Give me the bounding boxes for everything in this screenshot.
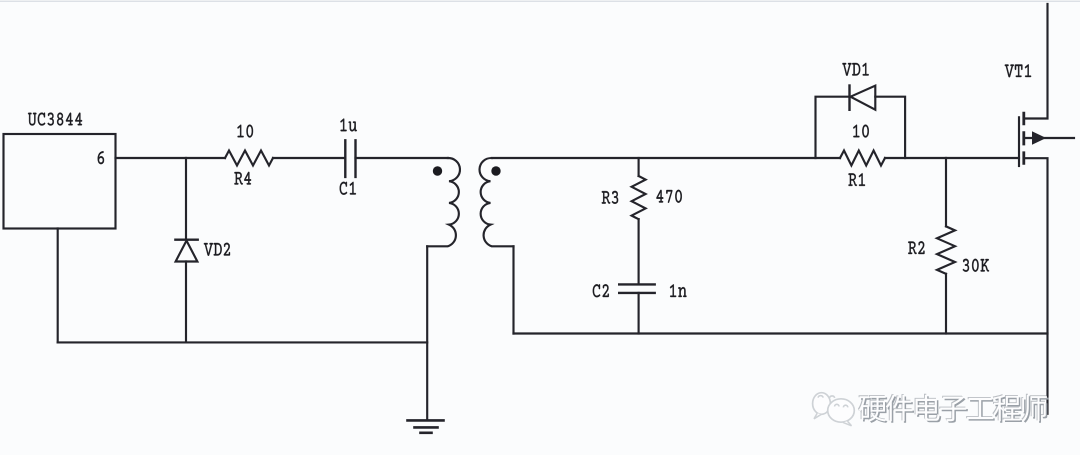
node dot secondary winding [491,166,500,175]
label R3 value 470 [656,190,681,203]
wire secondary top rail left [492,157,840,159]
resistor R4 [225,151,273,166]
wire pin6 to R4 [116,157,226,159]
label R1 [849,173,866,186]
node VD2 branch wire [185,158,187,239]
wire secondary bottom rail [514,332,1048,334]
capacitor C1 [345,140,355,177]
node dot primary winding [433,166,442,175]
transformer T1 secondary winding [480,158,514,246]
wire R3 to C2 [638,219,640,284]
wire R1 to gate [885,157,1019,159]
transistor VT1 channel bars [1022,113,1025,163]
label C1 [340,182,356,195]
pin 6 label [98,151,104,164]
wire C2 to bottom rail [638,293,640,334]
wechat logo left bubble [813,393,831,415]
transformer T1 primary winding [427,158,460,246]
wire R2 to bottom rail [945,274,947,334]
resistor R3 [632,176,646,219]
label R4 value 10 [238,125,254,138]
wire VD1 bypass loop [816,97,906,158]
capacitor C2 [619,284,655,293]
label VT1 [1005,64,1031,77]
label C2 value 1n [670,284,686,297]
wire VD2 to bottom rail [185,262,187,343]
label C2 [593,284,609,297]
diode VD2 [175,238,197,240]
label VD1 [842,63,868,76]
label R2 [908,241,924,254]
wechat logo eyes [818,396,835,398]
label R4 [234,172,251,185]
top hairline border [0,1,1080,2]
wire secondary to bottom rail [512,246,514,333]
wire UC3844 bottom drop [57,229,59,343]
label C1 value 1u [341,119,357,132]
node R3 branch [638,158,640,176]
ground [408,419,444,422]
wire C1 to transformer primary [356,157,448,159]
transistor VT1 body arrow [1033,132,1046,144]
label UC3844 [28,113,82,126]
wire VT1 drain lead [1024,4,1048,119]
wechat logo right bubble [828,399,855,422]
wire VT1 body lead [1024,137,1074,139]
node R2 branch [945,158,947,226]
IC U1 box UC3844 [4,134,116,229]
wire primary bottom rail [58,341,428,343]
label R1 value 10 [853,125,869,138]
diode VD1 [848,86,850,110]
transistor VT1 gate line [1018,117,1020,166]
resistor R1 [840,151,885,166]
wire VT1 source lead [1024,158,1048,414]
label R3 [602,191,618,204]
resistor R2 [937,226,955,273]
label VD2 [204,243,230,256]
label R2 value 30K [963,259,989,272]
watermark wechat logo [813,393,855,426]
wire R4 to C1 [273,157,345,159]
wire primary return to ground [426,246,428,420]
